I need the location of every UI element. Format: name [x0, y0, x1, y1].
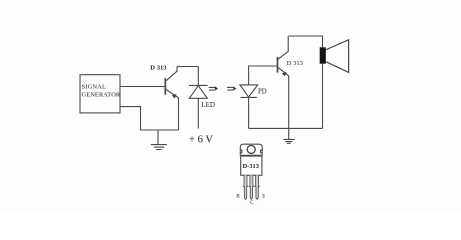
- ground right: [284, 128, 295, 143]
- wire collector of Q2 to speaker: [289, 36, 323, 47]
- speaker driver rectangle: [320, 47, 326, 63]
- svg-text:PD: PD: [258, 89, 267, 96]
- bottom rail of right circuit: [249, 127, 323, 129]
- wire base of Q1 from signal generator: [120, 86, 165, 88]
- light arrows into PD: [227, 87, 234, 90]
- speaker horn: [326, 40, 349, 73]
- svg-text:GENERATOR: GENERATOR: [82, 92, 121, 99]
- transistor Q2 emitter: [278, 67, 289, 128]
- svg-text:SIGNAL: SIGNAL: [82, 84, 107, 91]
- transistor Q1 emitter: [166, 90, 179, 131]
- TO-220 package tab: [240, 144, 262, 155]
- transistor Q2 emitter arrowhead: [282, 72, 287, 76]
- ground left: [151, 130, 167, 150]
- signal generator box: [80, 75, 120, 113]
- wire speaker to bottom rail: [322, 64, 324, 129]
- svg-text:C: C: [250, 201, 254, 206]
- TO-220 body: [241, 156, 262, 176]
- LED D1 cathode bar: [189, 84, 208, 86]
- TO-220 leg C: [249, 175, 253, 199]
- transistor Q1 emitter arrowhead: [172, 94, 177, 98]
- svg-text:E: E: [262, 195, 265, 200]
- svg-text:+ 6 V: + 6 V: [189, 135, 213, 146]
- TO-220 leg B: [243, 175, 247, 199]
- transistor Q1 base bar: [164, 78, 166, 95]
- transistor Q2 collector: [278, 36, 288, 59]
- LED D1 triangle: [189, 86, 207, 99]
- photodiode PD cathode bar: [241, 96, 257, 98]
- TO-220 mounting hole: [247, 145, 255, 153]
- photodiode PD triangle: [240, 85, 258, 97]
- TO-220 leg E: [255, 175, 259, 199]
- svg-text:D 313: D 313: [150, 65, 167, 72]
- TO-220 tab left notch: [240, 150, 242, 153]
- wire collector of Q1 to LED cathode: [177, 67, 198, 86]
- light arrows from LED: [209, 87, 216, 90]
- wire PD cathode to ground rail: [248, 97, 250, 128]
- wire PD anode to base of Q2: [249, 66, 278, 85]
- svg-text:LED: LED: [201, 101, 215, 109]
- transistor Q1 collector: [166, 67, 177, 81]
- svg-text:D-313: D-313: [243, 163, 259, 170]
- wire lower output of signal generator to ground rail: [120, 107, 179, 130]
- svg-text:D 313: D 313: [287, 60, 303, 67]
- wire LED anode to +6V: [197, 98, 199, 128]
- TO-220 tab/body boundary: [241, 155, 262, 157]
- svg-text:B: B: [236, 195, 240, 200]
- TO-220 tab right notch: [261, 150, 263, 153]
- transistor Q2 base bar: [277, 57, 279, 73]
